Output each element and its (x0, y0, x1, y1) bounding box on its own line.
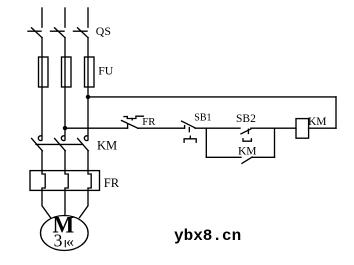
contactor KM pole 2 arc (61, 136, 64, 141)
contact KM aux blade (242, 157, 252, 163)
label motor phase bar (64, 240, 66, 247)
button SB1 blade (182, 121, 196, 128)
wire branch bottom right (252, 156, 275, 158)
contact FR control bridge (124, 116, 143, 118)
wire control line segment 3 (195, 127, 240, 129)
svg-text:SB2: SB2 (236, 113, 256, 125)
switch QS linkage dash 1 (28, 30, 41, 32)
button SB1 cap nub (189, 136, 191, 139)
button SB1 cap (184, 139, 196, 142)
contact FR control blade (122, 121, 138, 129)
node junction on L3 (86, 95, 90, 99)
button SB2 post (247, 129, 249, 133)
fuse FU 1 (39, 57, 49, 87)
switch QS pole 1 blade (32, 28, 43, 38)
wire branch left vertical (205, 128, 207, 157)
fuse FU 3 (85, 57, 95, 87)
svg-text:3: 3 (54, 230, 63, 250)
wire coil to right (309, 127, 336, 129)
coil KM box (296, 119, 309, 139)
button SB1 stem (188, 128, 190, 132)
fuse FU 2 (62, 57, 72, 87)
svg-text:KM: KM (97, 139, 117, 153)
svg-text:QS: QS (96, 24, 111, 38)
wire L2 top stub (64, 8, 66, 27)
thermal relay FR heater 3 (88, 171, 91, 191)
wire L2 QS to FU (64, 38, 66, 140)
contactor KM pole 3 arc (84, 136, 87, 141)
svg-text:ybx8.cn: ybx8.cn (174, 227, 241, 245)
wire FR to motor 2 (64, 190, 66, 215)
wire control line segment 2 (138, 127, 185, 129)
svg-text:FU: FU (98, 63, 114, 77)
thermal relay FR heater 2 (65, 171, 68, 191)
svg-text:FR: FR (142, 116, 156, 128)
contactor KM pole 1 arc (38, 136, 41, 141)
contact FR control bridge nub (131, 119, 133, 120)
wire L3 QS to FU (87, 38, 89, 140)
wire L3 top stub (87, 8, 89, 27)
svg-text:FR: FR (104, 176, 120, 190)
wire FR to motor 3 (80, 190, 89, 217)
contactor KM linkage line (36, 143, 82, 145)
contact FR control tick (127, 124, 129, 128)
wire L3 KM to FR (87, 151, 89, 171)
switch QS linkage dash 3 (74, 30, 88, 32)
wire control right drop (335, 97, 337, 128)
wire L1 KM to FR (41, 151, 43, 171)
svg-text:SB1: SB1 (194, 113, 211, 124)
switch QS linkage dash 2 (51, 30, 65, 32)
button SB2 cap (243, 139, 251, 141)
svg-text:«: « (66, 234, 74, 251)
wire branch bottom left (206, 156, 241, 158)
contactor KM pole 1 blade (32, 139, 43, 151)
wire L2 KM to FR (64, 151, 66, 171)
motor M circle (41, 216, 89, 251)
wire control top feed (88, 96, 336, 98)
wire branch right vertical (274, 128, 276, 157)
switch QS pole 3 blade (78, 28, 89, 38)
wire FR to motor 1 (42, 190, 51, 217)
svg-text:KM: KM (308, 116, 327, 128)
node junction on L2 (63, 126, 67, 130)
thermal relay FR heater 1 (42, 171, 45, 191)
thermal relay FR box (30, 171, 100, 191)
wire L1 top stub (41, 8, 43, 27)
wire control line segment 1 (65, 127, 128, 129)
wire control line segment 4 (251, 127, 296, 129)
contactor KM pole 2 blade (55, 139, 66, 151)
svg-text:KM: KM (238, 146, 257, 158)
wire L1 QS to FU (41, 38, 43, 140)
switch QS pole 2 blade (55, 28, 66, 38)
contactor KM pole 3 blade (78, 139, 89, 151)
button SB2 blade (241, 129, 251, 134)
button SB1 tick (184, 126, 186, 129)
